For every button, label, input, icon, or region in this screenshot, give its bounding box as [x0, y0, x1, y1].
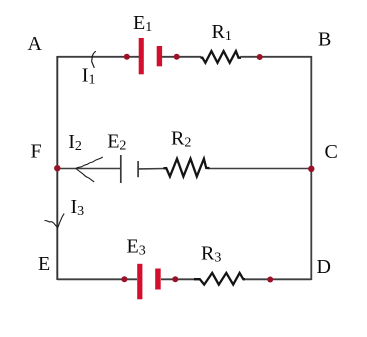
node dot top-right of R1: [257, 54, 263, 60]
wire top A-B: [57, 56, 311, 58]
node dot bottom-right of R3: [267, 277, 273, 283]
wire middle F-C: [57, 168, 311, 170]
node dot bottom-right of E3: [172, 276, 178, 282]
resistor R3: [194, 273, 245, 285]
svg-text:B: B: [318, 29, 331, 51]
svg-text:A: A: [28, 33, 43, 55]
battery E1: [139, 38, 162, 74]
svg-text:R2: R2: [171, 128, 191, 151]
node dot bottom-left of E3: [121, 276, 127, 282]
svg-text:I1: I1: [82, 65, 96, 88]
svg-text:E1: E1: [133, 12, 152, 35]
label current I2: [68, 131, 82, 154]
label current I1: [82, 65, 96, 88]
label current I3: [71, 196, 85, 219]
label R3 value: [201, 243, 221, 266]
resistor R1: [201, 51, 242, 63]
label node A: [28, 33, 43, 55]
label node B: [318, 29, 331, 51]
label node D: [317, 256, 331, 278]
svg-text:E: E: [38, 253, 50, 275]
current tick I1 on top wire: [92, 51, 96, 68]
label E1 value: [133, 12, 152, 35]
label node E: [38, 253, 50, 275]
label node C: [325, 141, 338, 163]
label E2 value: [107, 131, 126, 154]
svg-text:I3: I3: [71, 196, 85, 219]
label node F: [31, 141, 42, 163]
current arrow I2: [76, 157, 103, 182]
svg-text:I2: I2: [68, 131, 82, 154]
label R1 value: [212, 21, 232, 44]
svg-text:E3: E3: [127, 236, 146, 259]
label R2 value: [171, 128, 191, 151]
svg-text:F: F: [31, 141, 42, 163]
battery E3: [137, 264, 161, 300]
node dot top-right of E1: [174, 54, 180, 60]
wire bottom E-D: [57, 278, 311, 280]
wire right B-D: [310, 56, 312, 280]
label E3 value: [127, 236, 146, 259]
node C junction dot: [308, 166, 314, 172]
svg-text:R1: R1: [212, 21, 232, 44]
svg-text:D: D: [317, 256, 331, 278]
svg-text:C: C: [325, 141, 338, 163]
svg-text:R3: R3: [201, 243, 221, 266]
battery E2: [121, 155, 138, 183]
wire left A-E: [56, 56, 58, 280]
current arrow I3 on left wire: [45, 214, 65, 228]
svg-text:E2: E2: [107, 131, 126, 154]
resistor R2: [164, 159, 210, 177]
node dot top-left of E1: [124, 54, 130, 60]
node F junction dot: [54, 165, 60, 171]
